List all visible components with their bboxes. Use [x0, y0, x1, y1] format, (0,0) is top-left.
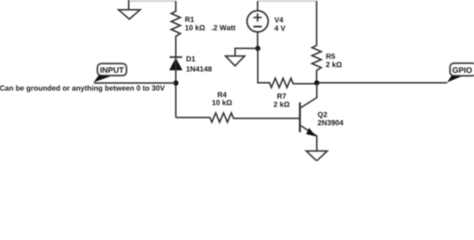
- text "Q2": [318, 112, 327, 119]
- diode D1 lead / wire to R4 corner: [175, 57, 177, 117]
- transistor Q2 emitter arrow: [306, 128, 316, 136]
- diode D1 body: [169, 58, 182, 70]
- text "R4": [218, 92, 227, 97]
- text "10 kohm": [212, 100, 232, 105]
- resistor R5: [312, 1, 321, 83]
- text "1N4148": [186, 66, 211, 71]
- text "10 kohm": [185, 25, 205, 30]
- transistor Q2 collector lead: [301, 84, 317, 108]
- text "R7": [277, 94, 286, 99]
- text "2 kohm": [326, 62, 342, 67]
- text "GPIO": [453, 67, 472, 73]
- text "D1": [187, 56, 196, 61]
- wire collector node to GPIO: [317, 82, 447, 84]
- ground GND3 emitter: [306, 151, 327, 161]
- wire INPUT: [94, 82, 176, 84]
- resistor R1: [171, 1, 180, 57]
- flag INPUT: [97, 64, 126, 76]
- text "INPUT": [100, 67, 123, 73]
- transistor Q2 emitter lead: [301, 126, 317, 151]
- node junction D1/INPUT: [173, 80, 178, 85]
- diode D1 cathode bar: [170, 56, 183, 58]
- text "R5": [326, 54, 335, 59]
- node junction V4-minus: [255, 46, 260, 51]
- text "Can be grounded or anything between 0 to 30V": [0, 85, 165, 92]
- ground GND2: [226, 56, 245, 66]
- voltage source V4: [257, 1, 259, 11]
- text "R1": [185, 17, 194, 22]
- wire V4 node down + resistor R7: [258, 48, 317, 87]
- text ".2 Watt": [212, 25, 236, 30]
- text "2N3904": [318, 120, 344, 125]
- text "4 V": [274, 26, 285, 31]
- wire to ground GND2: [235, 48, 258, 55]
- wire top-right rail gray: [258, 0, 317, 2]
- flag GPIO: [450, 63, 474, 76]
- node junction collector: [314, 80, 319, 85]
- wire R4 rail + resistor R4: [176, 113, 299, 122]
- ground GND1 top-left: [119, 0, 141, 19]
- transistor Q2 base bar: [299, 102, 301, 132]
- wire top-left rail gray: [129, 0, 176, 2]
- text "V4": [274, 17, 283, 22]
- text "2 kohm": [274, 102, 290, 107]
